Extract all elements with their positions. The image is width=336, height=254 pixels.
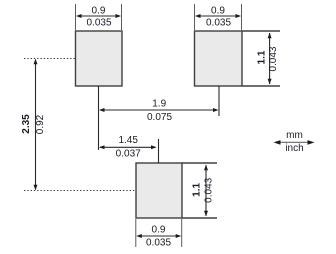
dimension line 0.9 below P3 [136,234,181,238]
dimension line 1.9 between pad centers [99,108,219,112]
dimension line 1.1 right of P2 [268,33,272,85]
extension line P3 top edge extended right [182,162,217,164]
dimension line 1.1 right of P3 [204,165,208,217]
svg-text:1.9: 1.9 [152,98,166,109]
svg-text:inch: inch [285,143,303,154]
svg-text:mm: mm [286,130,303,141]
lead line from P2 bottom center [218,86,220,116]
extension line below P3 left [135,219,137,247]
legend mm/inch double arrow [274,140,315,145]
dimension line 0.9 above P1 [76,14,121,18]
extension line below P3 right [181,219,183,247]
svg-text:0.075: 0.075 [147,112,172,123]
svg-text:0.043: 0.043 [268,46,279,71]
dotted centerline of bottom pad [24,190,136,192]
svg-text:0.035: 0.035 [146,238,171,249]
svg-text:0.035: 0.035 [86,18,111,29]
extension line right of P1 width dim [121,4,123,30]
extension line left of P1 width dim [75,4,77,30]
lead line from P1 bottom center [98,86,100,150]
svg-text:0.9: 0.9 [92,5,106,16]
extension line left of P2 width dim [194,4,196,30]
svg-text:0.9: 0.9 [211,5,225,16]
pad P1 (top-left land) [76,31,123,86]
svg-text:0.037: 0.037 [116,148,141,159]
dimension line 1.45 [99,145,157,149]
dimension line 0.9 above P2 [195,14,241,18]
svg-text:0.9: 0.9 [152,224,166,235]
svg-text:0.035: 0.035 [206,18,231,29]
lead line from P3 top center [158,139,160,163]
svg-text:1.45: 1.45 [118,135,138,146]
svg-text:1.1: 1.1 [191,183,202,197]
svg-text:0.92: 0.92 [35,114,46,134]
extension line P2 bottom edge extended right [242,85,280,87]
extension line P3 bottom edge extended right [182,217,217,219]
svg-text:0.043: 0.043 [203,177,214,202]
extension line P2 top edge extended right [242,30,280,32]
svg-text:2.35: 2.35 [21,114,32,134]
extension line right of P2 width dim [241,4,243,30]
svg-text:1.1: 1.1 [257,50,268,64]
dimension line 2.35 left vertical [34,59,38,190]
pad P3 (bottom land) [136,163,182,218]
pad P2 (top-right land) [195,31,243,86]
dotted centerline of top pads [24,58,75,60]
